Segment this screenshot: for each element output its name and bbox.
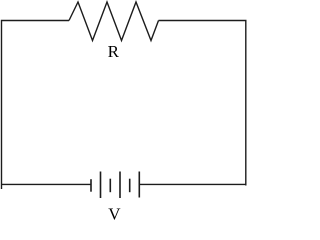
svg-text:V: V: [108, 205, 121, 224]
svg-text:R: R: [108, 42, 120, 61]
